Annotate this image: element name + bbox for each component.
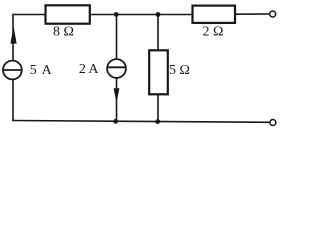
- junction dot bottom node at 5 ohm branch: [155, 119, 160, 124]
- current source 5 A: [3, 61, 22, 80]
- svg-text:A: A: [42, 63, 53, 78]
- svg-text:2: 2: [79, 62, 86, 77]
- wire left vertical upper segment: [12, 14, 14, 61]
- wire bottom horizontal: [12, 121, 270, 123]
- wire top-right segment to terminal: [235, 13, 270, 15]
- current direction arrow of 2 A source (pointing down): [114, 88, 120, 103]
- svg-text:2 Ω: 2 Ω: [203, 25, 224, 40]
- junction dot top node at 2A branch: [114, 12, 119, 17]
- wire top-left horizontal segment: [13, 14, 46, 16]
- wire 5 ohm branch vertical upper segment: [157, 15, 159, 51]
- svg-text:A: A: [88, 62, 99, 77]
- junction dot top node at 5 ohm branch: [156, 12, 161, 17]
- wire left vertical lower segment: [12, 79, 14, 121]
- svg-text:5 Ω: 5 Ω: [169, 63, 190, 78]
- current source 2 A: [107, 59, 126, 78]
- svg-text:8 Ω: 8 Ω: [53, 25, 74, 40]
- junction dot bottom node at 2A branch: [113, 119, 118, 124]
- terminal a (top right, open circle): [270, 11, 276, 17]
- resistor 8 ohm: [46, 5, 90, 23]
- wire top middle segment: [90, 14, 193, 16]
- wire 2A branch vertical lower segment: [116, 78, 118, 121]
- wire 5 ohm branch vertical lower segment: [157, 94, 159, 122]
- svg-text:5: 5: [30, 63, 37, 78]
- current direction arrow of 5 A source (pointing up): [10, 26, 16, 43]
- terminal b (bottom right, open circle): [270, 120, 276, 126]
- wire 2A branch vertical upper segment: [116, 15, 118, 60]
- resistor 5 ohm: [149, 50, 168, 94]
- resistor 2 ohm: [193, 6, 236, 23]
